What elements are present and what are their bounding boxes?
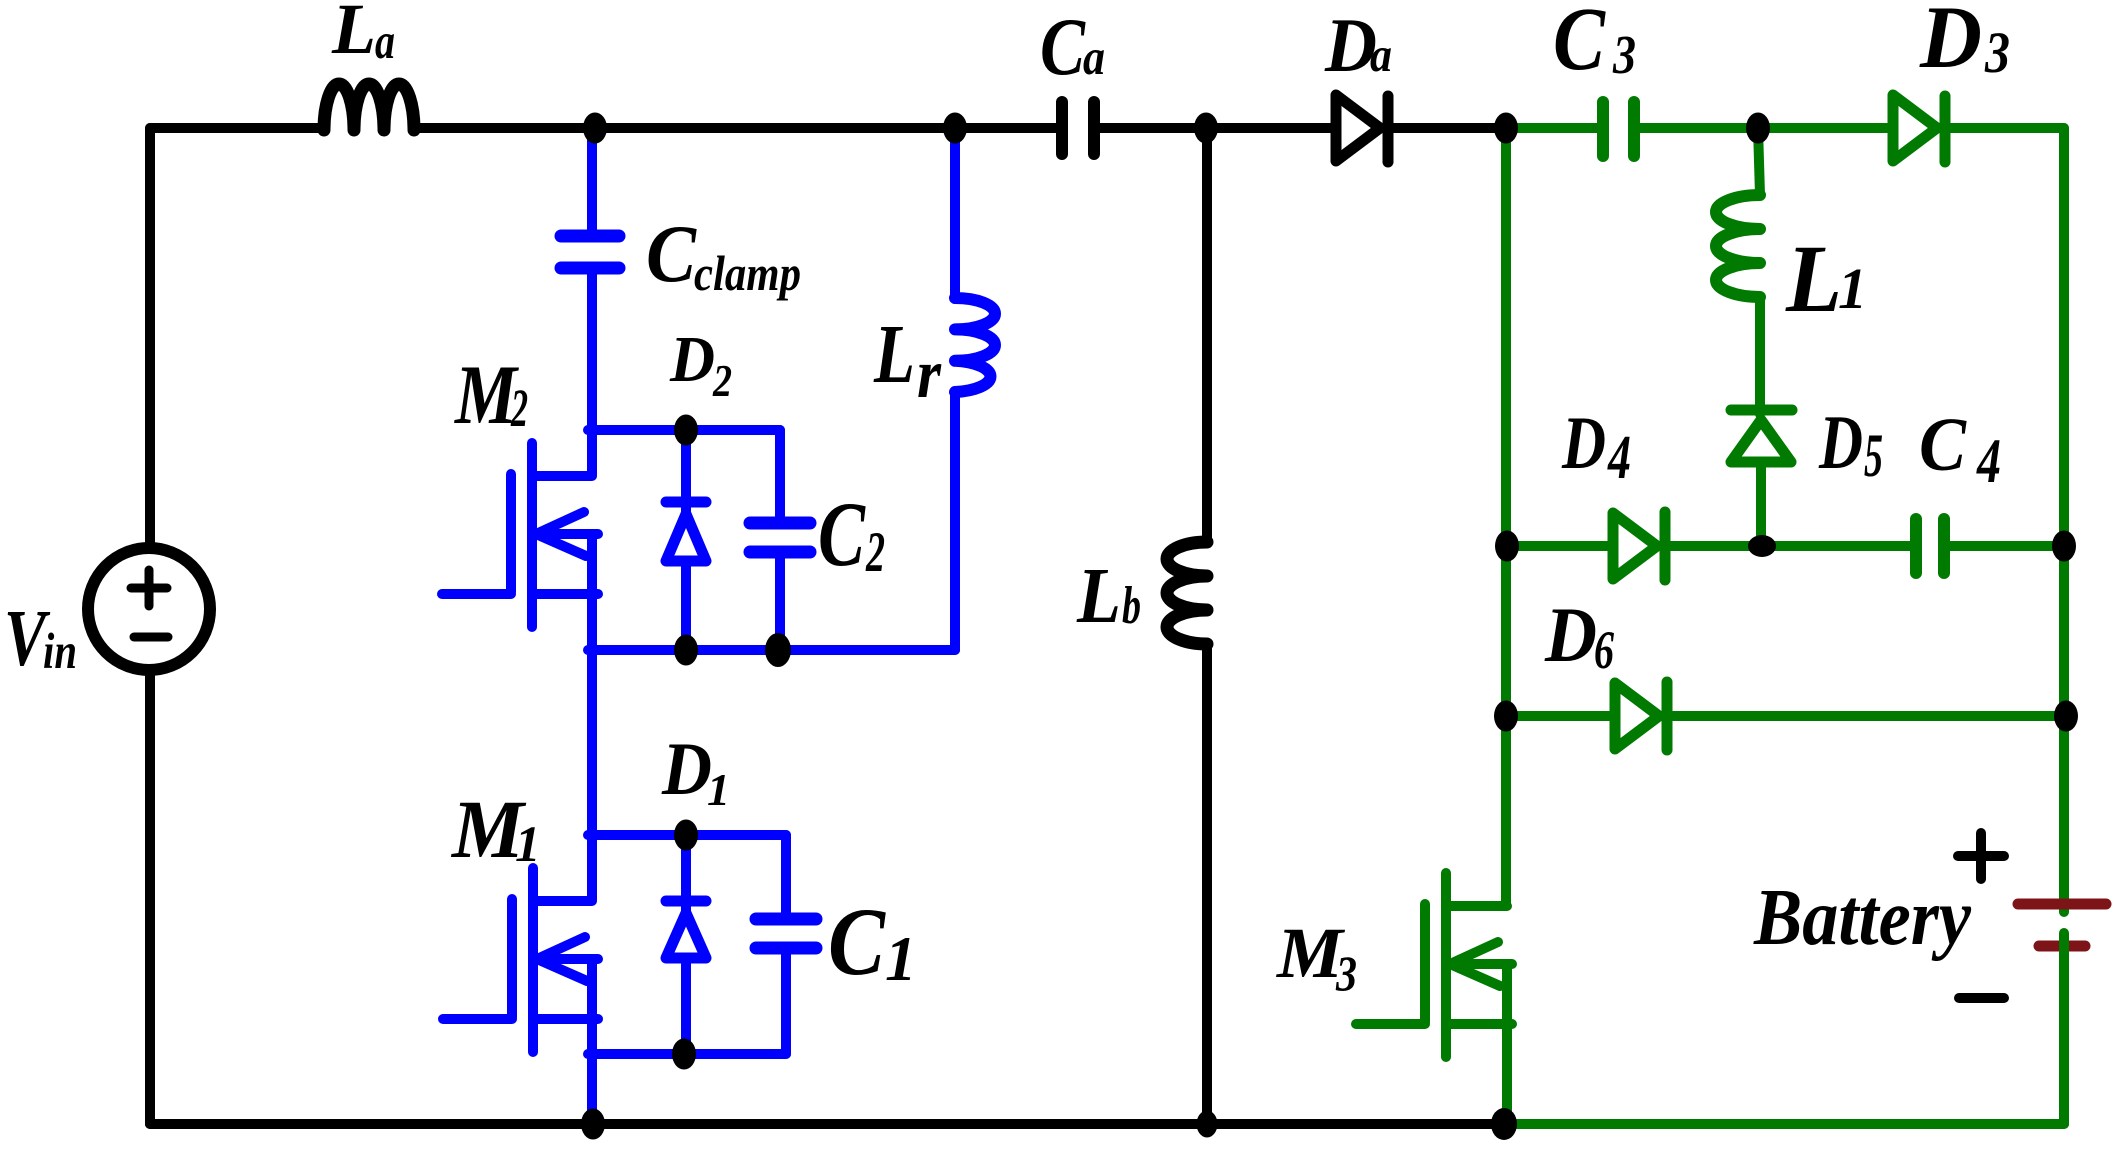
svg-text:D: D — [669, 323, 715, 396]
inductor Lb — [1167, 128, 1207, 1124]
svg-text:6: 6 — [1594, 620, 1614, 680]
svg-text:clamp: clamp — [694, 245, 801, 301]
wire D4 bus right (C4 to right rail) — [1949, 541, 2064, 551]
svg-text:C: C — [646, 208, 697, 299]
svg-text:Battery: Battery — [1753, 874, 1971, 962]
svg-text:b: b — [1122, 577, 1141, 635]
wire green right rail lower — [2059, 933, 2069, 1124]
wire M2 drain bus — [588, 425, 780, 435]
svg-text:1: 1 — [885, 924, 917, 994]
node top wire at Cclamp branch — [583, 113, 607, 144]
diode Da — [1336, 95, 1388, 162]
wire left vertical (Vin bottom lead to bottom rail) — [145, 672, 155, 1124]
capacitor C2 — [750, 430, 810, 650]
inductor La — [324, 84, 414, 130]
node D2 top — [674, 415, 698, 446]
voltage source Vin — [88, 548, 210, 670]
svg-text:1: 1 — [1838, 256, 1867, 321]
node D5 anode junction — [1748, 535, 1776, 557]
battery — [2018, 904, 2106, 946]
svg-text:L: L — [873, 308, 915, 401]
svg-text:D: D — [661, 728, 712, 811]
node C2 bottom — [765, 633, 791, 667]
battery plus — [1958, 833, 2004, 879]
node top wire at Lb branch — [1194, 113, 1218, 144]
node Lb bottom rail — [1197, 1111, 1218, 1138]
wire green left rail (node down to D4 bus) — [1501, 128, 1511, 546]
node top wire at Lr branch — [943, 113, 967, 144]
svg-text:in: in — [43, 624, 77, 680]
svg-text:D: D — [1818, 399, 1863, 485]
wire green left rail (D6 bus to M3 drain) — [1501, 716, 1511, 906]
wire left vertical (Vin top lead) — [145, 128, 155, 547]
svg-text:D: D — [1544, 591, 1597, 678]
capacitor C3 — [1603, 102, 1634, 156]
wire top (Ca to Da) — [1099, 123, 1332, 133]
wire M2-M1 interconnect — [587, 650, 597, 835]
inductor L1 — [1716, 128, 1760, 414]
transistor M2 — [442, 430, 598, 650]
wire M2 source bus (to Lr) — [588, 645, 955, 655]
wire D4 bus left — [1506, 541, 1610, 551]
node M3 source bottom rail — [1491, 1108, 1517, 1140]
capacitor C4 — [1916, 519, 1944, 573]
node D1 top — [674, 820, 698, 851]
svg-text:C: C — [1040, 1, 1086, 92]
svg-text:L: L — [1785, 225, 1842, 332]
svg-text:M: M — [453, 348, 519, 442]
capacitor Ca — [1062, 102, 1094, 154]
wire green top (D3 to right rail corner) — [1945, 123, 2064, 133]
svg-text:2: 2 — [712, 355, 732, 406]
node D6 right rail — [2054, 701, 2078, 732]
svg-text:1: 1 — [515, 817, 541, 873]
capacitor Cclamp — [561, 128, 619, 430]
svg-text:4: 4 — [1607, 424, 1631, 492]
wire D6 bus left — [1506, 711, 1610, 721]
svg-text:2: 2 — [865, 521, 885, 584]
svg-text:3: 3 — [1984, 20, 2010, 85]
svg-text:L: L — [331, 0, 376, 69]
diode D4 — [1613, 512, 1665, 580]
diode D6 — [1615, 682, 1667, 750]
wire M1 drain bus — [588, 830, 786, 840]
battery minus — [1959, 993, 2004, 1003]
node M1 source at bottom rail — [581, 1109, 605, 1140]
wire top-left horizontal (Vin+ to La) — [150, 123, 324, 133]
node Da-green junction — [1494, 113, 1518, 144]
diode D5 — [1731, 410, 1792, 546]
svg-text:3: 3 — [1612, 24, 1636, 85]
wire top (La to Ca) — [414, 123, 1056, 133]
svg-text:2: 2 — [510, 378, 528, 438]
wire green top (node to C3) — [1506, 123, 1598, 133]
wire M1 source bus — [588, 1049, 786, 1059]
svg-text:C: C — [818, 483, 866, 585]
svg-text:D: D — [1561, 402, 1606, 485]
node L1 branch — [1746, 113, 1770, 144]
inductor Lr — [955, 128, 995, 650]
svg-text:r: r — [917, 336, 942, 413]
wire D6 bus right — [1667, 711, 2066, 721]
transistor M1 — [443, 835, 598, 1124]
wire bottom rail green — [1504, 1119, 2064, 1129]
wire green top (node to D3) — [1758, 123, 1888, 133]
svg-text:a: a — [1370, 27, 1392, 82]
diode D3 — [1893, 95, 1945, 162]
wire green top (C3 to L1 node) — [1639, 123, 1758, 133]
wire top (Da to green node) — [1388, 123, 1502, 133]
diode D1 — [666, 835, 706, 1054]
diode D2 — [666, 430, 706, 650]
svg-text:5: 5 — [1864, 423, 1883, 490]
svg-text:C: C — [1919, 403, 1967, 487]
node D6 left — [1494, 701, 1518, 732]
svg-text:C: C — [1553, 0, 1606, 89]
svg-text:3: 3 — [1335, 945, 1357, 1001]
transistor M3 — [1356, 873, 1512, 1124]
wire bottom rail black (left corner to M3 source node) — [150, 1119, 1504, 1129]
svg-text:D: D — [1919, 0, 1982, 87]
node C4 right rail — [2052, 531, 2076, 562]
node D4 left — [1495, 531, 1519, 562]
wire green left rail (D4 bus to D6 bus) — [1501, 546, 1511, 716]
svg-text:a: a — [1083, 30, 1105, 86]
wire green right rail upper — [2059, 128, 2069, 912]
capacitor C1 — [756, 835, 816, 1054]
node D2 bottom — [674, 635, 698, 666]
wire D4 bus middle — [1665, 541, 1911, 551]
svg-text:a: a — [375, 14, 395, 70]
svg-text:4: 4 — [1976, 426, 2001, 496]
svg-text:C: C — [828, 888, 886, 995]
svg-text:1: 1 — [707, 764, 730, 815]
svg-text:L: L — [1076, 553, 1121, 640]
node D1 bottom — [672, 1039, 696, 1070]
